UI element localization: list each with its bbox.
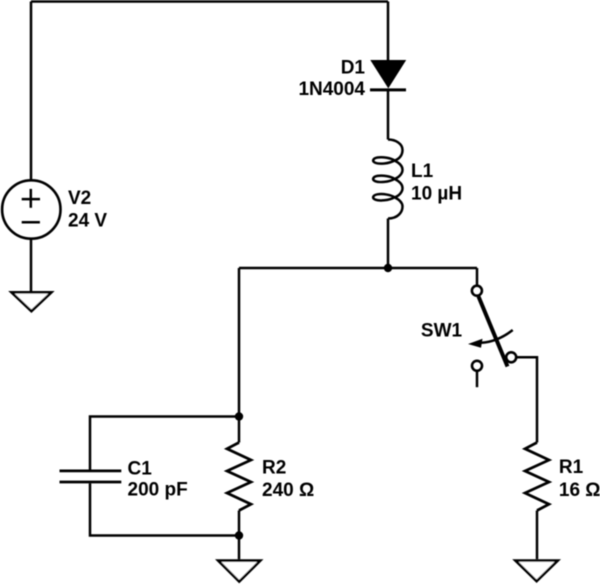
- wire V2 bottom to ground: [30, 239, 33, 292]
- svg-text:L1: L1: [411, 161, 434, 182]
- label R2: [262, 457, 286, 478]
- label D1: [341, 58, 366, 79]
- svg-text:1N4004: 1N4004: [298, 79, 365, 100]
- wire inductor bottom to node A: [387, 219, 390, 269]
- value label 10 µH: [411, 184, 462, 205]
- label SW1: [421, 321, 463, 342]
- label C1: [128, 459, 153, 480]
- wire diode cathode to inductor L1: [387, 90, 390, 140]
- wire top-right vertical to diode D1 anode: [387, 2, 390, 61]
- wire R2 bottom to node C: [238, 511, 241, 536]
- capacitor C1: [60, 471, 122, 482]
- resistor R2: [227, 443, 251, 511]
- svg-text:10 µH: 10 µH: [411, 184, 462, 205]
- ground (middle, under R2/C1): [215, 559, 264, 583]
- svg-text:240 Ω: 240 Ω: [262, 480, 314, 501]
- wire R1 bottom to ground: [536, 511, 539, 560]
- ground (left, under V2): [8, 291, 55, 313]
- svg-text:R2: R2: [262, 457, 286, 478]
- node A junction dot: [384, 264, 392, 272]
- svg-text:D1: D1: [341, 58, 366, 79]
- wire top rail horizontal: [31, 0, 388, 3]
- value label 24 V: [68, 211, 107, 232]
- wire node B to capacitor branch (left): [90, 417, 239, 470]
- svg-text:16 Ω: 16 Ω: [559, 480, 600, 501]
- node B junction dot: [235, 412, 243, 420]
- label V2: [68, 188, 91, 209]
- node C junction dot: [235, 531, 243, 539]
- wire capacitor bottom to node C: [90, 483, 239, 535]
- resistor R1: [525, 443, 549, 511]
- value label 240 Ω: [262, 480, 314, 501]
- svg-text:C1: C1: [128, 459, 153, 480]
- svg-text:24 V: 24 V: [68, 211, 107, 232]
- value label 200 pF: [128, 479, 188, 500]
- wire node A horizontal rail: [239, 267, 477, 270]
- value label 16 Ω: [559, 480, 600, 501]
- diode D1: [370, 61, 406, 90]
- value label 1N4004: [298, 79, 365, 100]
- wire node C to ground: [238, 536, 241, 560]
- wire top-left vertical from V2 to top rail: [30, 2, 33, 180]
- label L1: [411, 161, 434, 182]
- wire switch throw to R1 branch: [515, 357, 537, 442]
- inductor L1: [373, 140, 402, 219]
- svg-text:R1: R1: [559, 457, 584, 478]
- wire switch stub down from rail: [476, 268, 479, 286]
- wire node B to R2: [238, 417, 241, 443]
- svg-text:V2: V2: [68, 188, 91, 209]
- voltage source V2: [2, 180, 60, 238]
- svg-text:SW1: SW1: [421, 321, 463, 342]
- svg-text:200 pF: 200 pF: [128, 479, 188, 500]
- switch SW1: [468, 286, 516, 388]
- ground (right, under R1): [512, 559, 561, 583]
- wire left branch down to node B: [238, 268, 241, 417]
- label R1: [559, 457, 584, 478]
